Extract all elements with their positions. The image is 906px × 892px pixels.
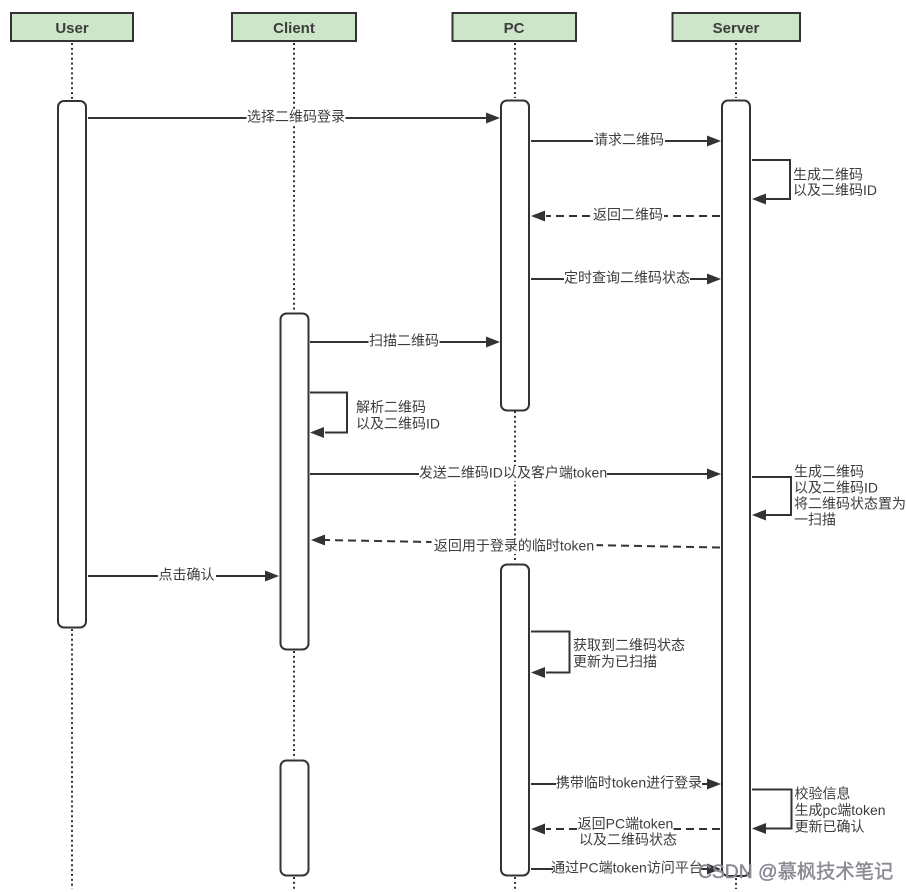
svg-text:以及二维码状态: 以及二维码状态 — [579, 832, 677, 848]
svg-text:生成二维码: 生成二维码 — [793, 167, 863, 183]
svg-text:以及二维码ID: 以及二维码ID — [794, 480, 878, 496]
svg-text:获取到二维码状态: 获取到二维码状态 — [573, 637, 685, 653]
svg-text:返回二维码: 返回二维码 — [593, 207, 663, 223]
svg-text:校验信息: 校验信息 — [795, 786, 851, 802]
svg-text:返回PC端token: 返回PC端token — [578, 816, 674, 832]
svg-text:点击确认: 点击确认 — [159, 567, 215, 583]
svg-text:生成二维码: 生成二维码 — [794, 464, 864, 480]
svg-text:定时查询二维码状态: 定时查询二维码状态 — [564, 270, 690, 286]
svg-text:返回用于登录的临时token: 返回用于登录的临时token — [434, 538, 594, 554]
svg-text:发送二维码ID以及客户端token: 发送二维码ID以及客户端token — [419, 465, 607, 481]
svg-text:CSDN @慕枫技术笔记: CSDN @慕枫技术笔记 — [698, 861, 893, 883]
svg-text:将二维码状态置为: 将二维码状态置为 — [794, 496, 906, 512]
svg-text:选择二维码登录: 选择二维码登录 — [247, 109, 345, 125]
svg-text:Client: Client — [273, 20, 315, 37]
svg-text:一扫描: 一扫描 — [794, 512, 836, 528]
svg-text:User: User — [55, 20, 89, 37]
svg-text:通过PC端token访问平台: 通过PC端token访问平台 — [551, 860, 703, 876]
svg-text:PC: PC — [504, 20, 525, 37]
svg-text:以及二维码ID: 以及二维码ID — [356, 416, 440, 432]
svg-text:更新为已扫描: 更新为已扫描 — [573, 654, 657, 670]
svg-text:Server: Server — [713, 20, 760, 37]
svg-text:扫描二维码: 扫描二维码 — [369, 333, 439, 349]
svg-text:生成pc端token: 生成pc端token — [795, 802, 886, 818]
svg-text:携带临时token进行登录: 携带临时token进行登录 — [556, 775, 702, 791]
svg-text:解析二维码: 解析二维码 — [356, 399, 426, 415]
svg-text:以及二维码ID: 以及二维码ID — [793, 182, 877, 198]
svg-text:请求二维码: 请求二维码 — [594, 132, 664, 148]
svg-text:更新已确认: 更新已确认 — [795, 819, 865, 835]
